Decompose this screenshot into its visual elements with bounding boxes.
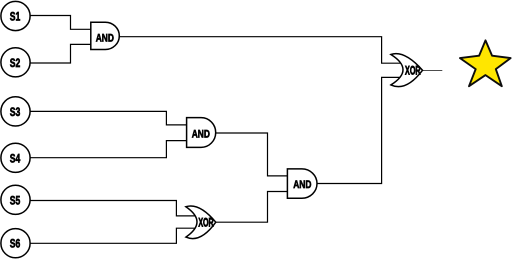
svg-text:XOR: XOR bbox=[405, 64, 421, 78]
svg-text:S6: S6 bbox=[10, 237, 21, 251]
wire S6 to XOR1 bbox=[29, 228, 197, 243]
wire S5 to XOR1 bbox=[29, 201, 197, 216]
wire S4 to AND2 bbox=[29, 141, 189, 158]
svg-text:AND: AND bbox=[293, 179, 311, 191]
wire AND2 output to AND3 top input bbox=[208, 133, 292, 176]
input S6 bbox=[1, 229, 30, 258]
svg-text:S4: S4 bbox=[10, 151, 21, 165]
svg-text:XOR: XOR bbox=[198, 215, 213, 229]
svg-text:AND: AND bbox=[96, 32, 114, 44]
and-gate U2 AND bbox=[187, 118, 216, 148]
wire XOR1 output to AND3 bottom input bbox=[210, 192, 292, 223]
input S3 bbox=[1, 97, 30, 126]
input S1 bbox=[1, 1, 30, 30]
and-gate U4 AND bbox=[287, 169, 317, 198]
wire AND3 output to XOR2 bottom input bbox=[310, 77, 405, 183]
wire AND1 output to XOR2 top input bbox=[112, 37, 405, 64]
svg-text:S2: S2 bbox=[10, 56, 21, 70]
output star bbox=[460, 40, 511, 86]
xor-gate U3 XOR bbox=[186, 206, 216, 239]
xor-gate U5 XOR bbox=[391, 54, 423, 87]
svg-text:S5: S5 bbox=[10, 193, 21, 207]
input S2 bbox=[1, 48, 30, 77]
input S4 bbox=[1, 143, 30, 172]
input S5 bbox=[1, 185, 30, 214]
wire S1 to AND1 bbox=[29, 16, 93, 30]
wire XOR2 output bbox=[417, 70, 442, 72]
and-gate U1 AND bbox=[91, 22, 120, 49]
svg-text:S1: S1 bbox=[10, 10, 21, 24]
svg-text:S3: S3 bbox=[10, 105, 21, 119]
svg-text:AND: AND bbox=[192, 128, 210, 140]
wire S3 to AND2 bbox=[29, 111, 189, 125]
wire S2 to AND1 bbox=[29, 44, 93, 63]
